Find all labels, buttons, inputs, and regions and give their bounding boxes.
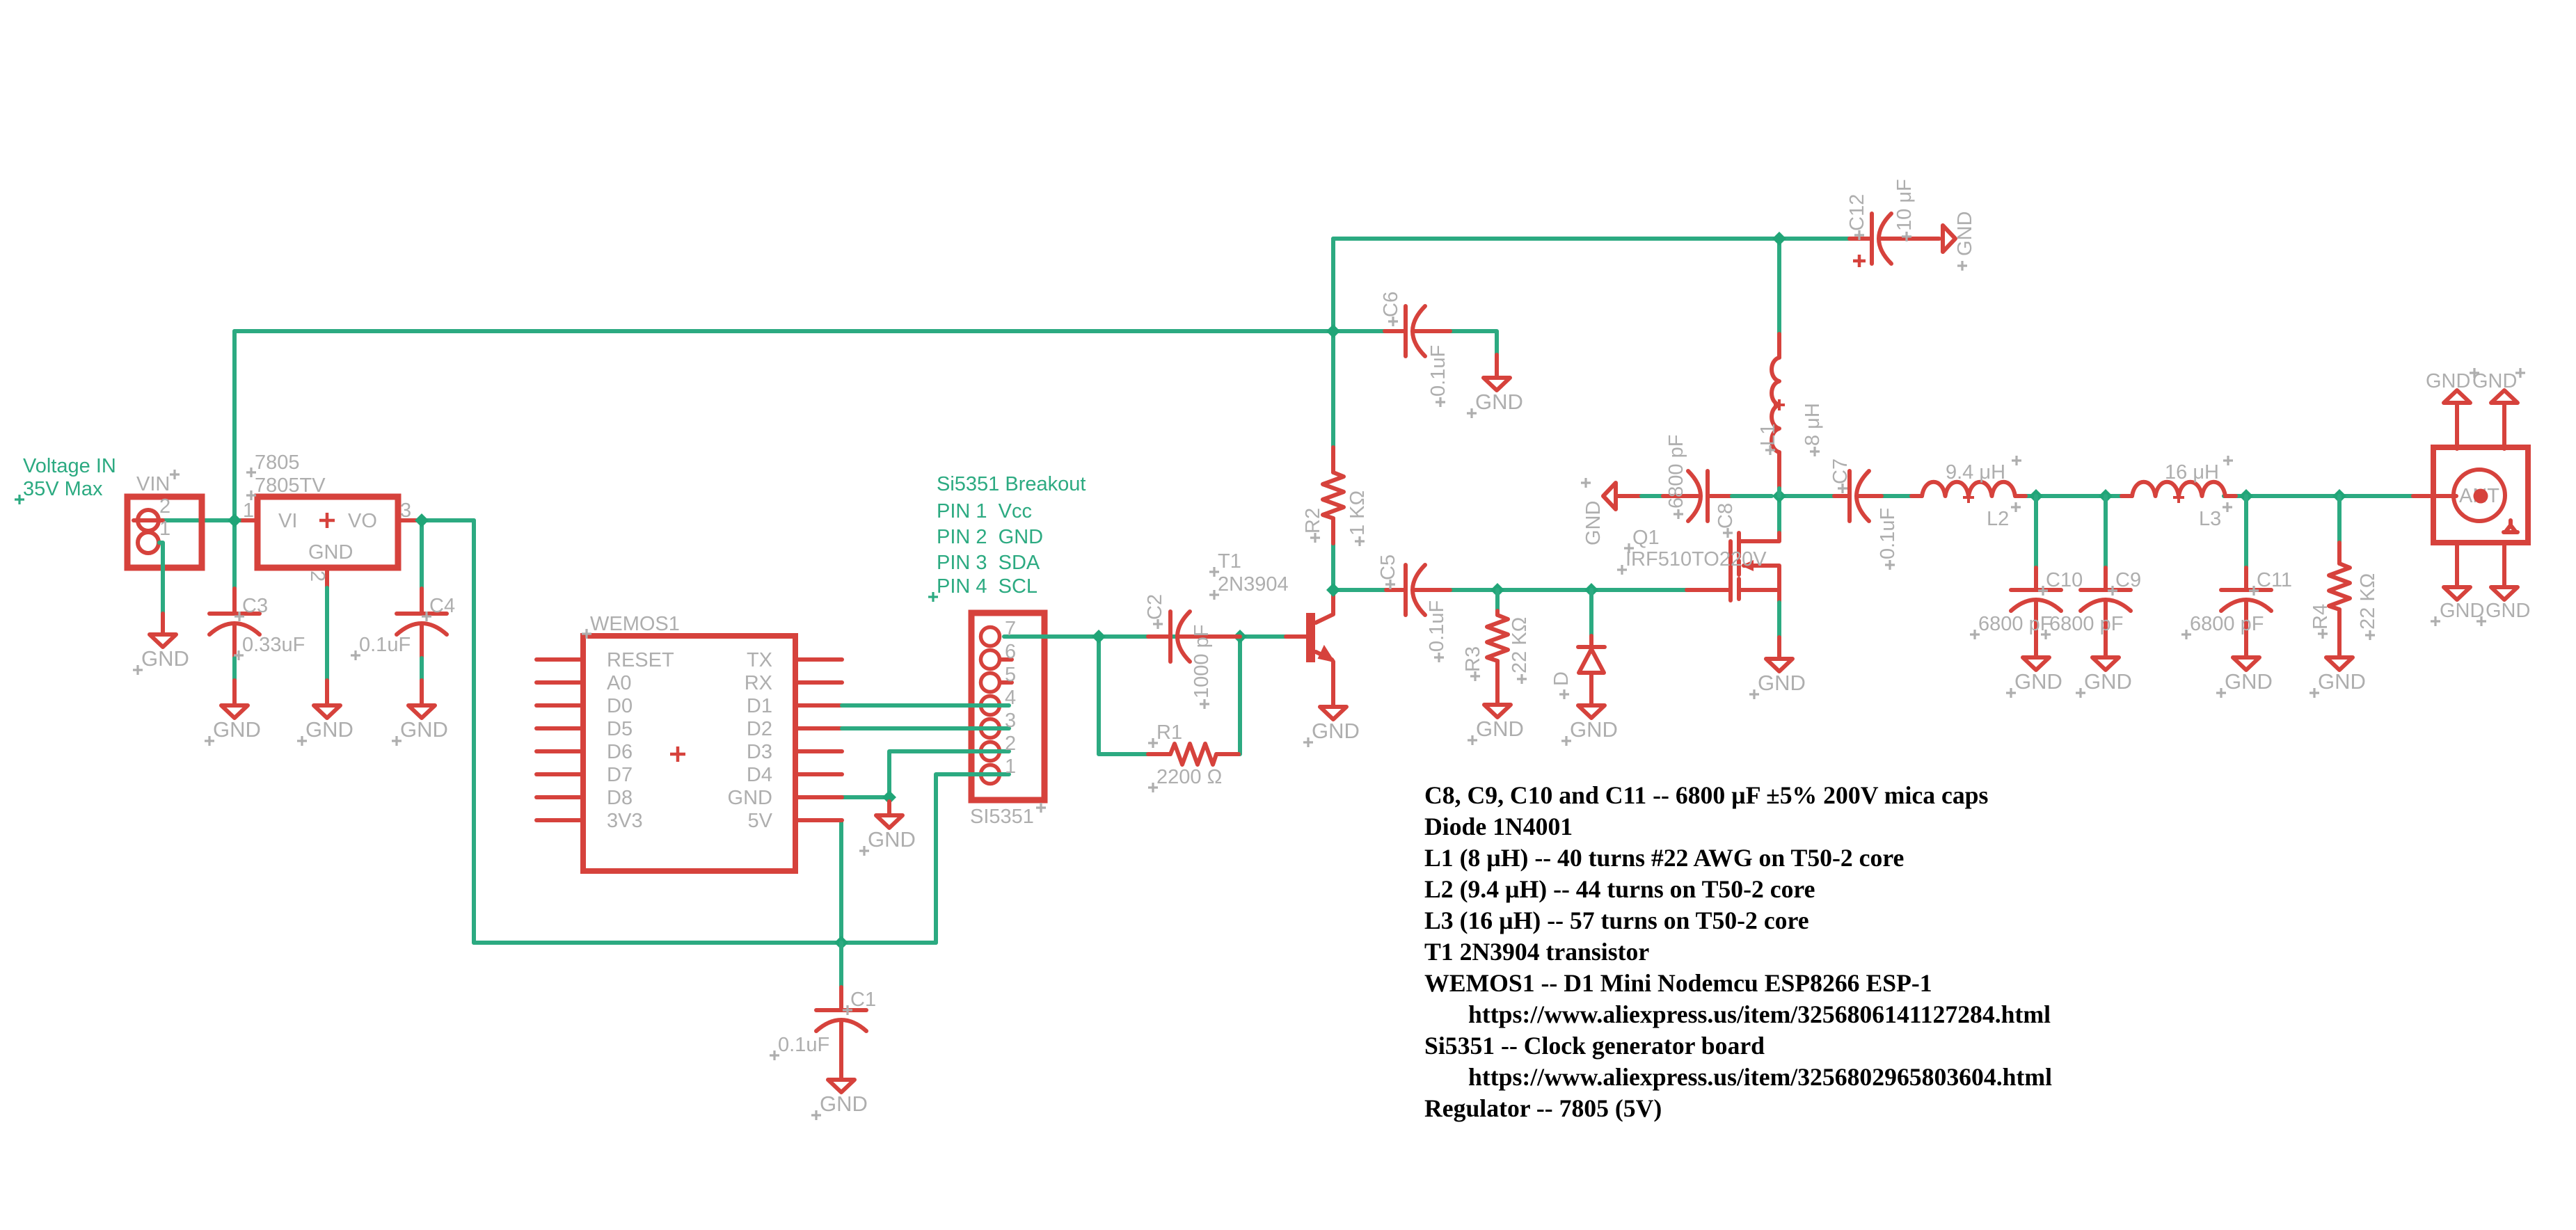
wire C5 to R3/diode/Q1 gate: [1450, 588, 1687, 592]
svg-text:GND: GND: [400, 717, 448, 742]
svg-text:GND: GND: [1476, 717, 1524, 741]
node VIN junction: [228, 513, 241, 527]
svg-text:PIN 2 GND: PIN 2 GND: [937, 526, 1043, 548]
inductor L3 16 uH: [2122, 494, 2132, 498]
wire 12V rail horizontal y=476: [234, 329, 1333, 333]
svg-text:VIN: VIN: [136, 473, 170, 495]
wire vertical x=681 down to 5V rail: [472, 520, 476, 943]
capacitor C6 0.1uF: [1385, 329, 1406, 333]
wire C6 to GND corner: [1450, 331, 1497, 355]
resistor R2 1 Kohm: [1331, 331, 1335, 447]
svg-text:2: 2: [159, 495, 170, 518]
wire Q1 source to ground: [1777, 602, 1781, 637]
svg-text:35V Max: 35V Max: [23, 478, 103, 500]
svg-text:22 KΩ: 22 KΩ: [1509, 617, 1531, 673]
ground GND under VIN pin1: [161, 614, 165, 634]
pin D1 of WEMOS1: [795, 703, 842, 708]
wire C12 lead: [1779, 237, 1850, 241]
pin D8 of WEMOS1: [536, 795, 583, 799]
svg-text:9.4 μH: 9.4 μH: [1946, 461, 2005, 484]
pin GND of WEMOS1: [795, 795, 842, 799]
svg-text:R3: R3: [1462, 646, 1484, 672]
svg-text:IRF510TO220V: IRF510TO220V: [1625, 548, 1767, 570]
pin 5 of SI5351: [981, 673, 1000, 692]
ground GND under R4: [2326, 657, 2353, 670]
svg-text:GND: GND: [868, 827, 916, 852]
ground GND under C10: [2023, 657, 2049, 670]
svg-text:L2: L2: [1987, 508, 2009, 530]
pin lead into ANT: [2413, 494, 2456, 498]
connector SI5351 header box: [971, 613, 1044, 800]
svg-text:6800 pF: 6800 pF: [1978, 613, 2052, 635]
wire VIN pin1 to GND: [159, 543, 163, 614]
wire rail up to SI5351 pin1: [936, 774, 1009, 943]
wire collector rail to C5: [1333, 588, 1386, 592]
ground GND under T1 emitter: [1320, 707, 1346, 719]
pin 1 of SI5351: [981, 765, 1000, 784]
node VO junction: [415, 513, 429, 527]
svg-text:Si5351 -- Clock generator boar: Si5351 -- Clock generator board: [1424, 1032, 1765, 1060]
svg-text:L2 (9.4 µH) -- 44 turns on T50: L2 (9.4 µH) -- 44 turns on T50-2 core: [1424, 875, 1815, 903]
ground GND under C4: [408, 705, 435, 718]
wire L2 to L3 with C10/C9 taps: [2015, 494, 2132, 498]
svg-text:C8: C8: [1715, 503, 1737, 529]
svg-text:6800 pF: 6800 pF: [2049, 613, 2123, 635]
svg-text:C4: C4: [429, 595, 455, 617]
pin 1 lead of 7805: [242, 518, 257, 522]
svg-text:https://www.aliexpress.us/item: https://www.aliexpress.us/item/325680614…: [1468, 1000, 2051, 1028]
svg-text:5V: 5V: [748, 810, 773, 832]
svg-text:0.1uF: 0.1uF: [359, 634, 411, 656]
capacitor C5 0.1uF: [1386, 588, 1406, 592]
pin 3 of SI5351: [981, 719, 1000, 738]
svg-text:C8, C9, C10 and C11 -- 6800 µF: C8, C9, C10 and C11 -- 6800 µF ±5% 200V …: [1424, 781, 1989, 809]
svg-text:GND: GND: [2084, 669, 2132, 694]
ground GND under R3: [1484, 705, 1511, 717]
svg-text:GND: GND: [2014, 669, 2062, 694]
wire C7 to L2: [1882, 494, 1922, 498]
svg-text:2200 Ω: 2200 Ω: [1156, 766, 1222, 788]
wire drain node down from L1 junction: [1777, 496, 1781, 533]
pin D3 of WEMOS1: [795, 749, 842, 753]
wire bottom 5V rail y=1355: [474, 941, 936, 945]
node pin7 junction right: [1233, 630, 1247, 644]
svg-text:1000 pF: 1000 pF: [1191, 625, 1213, 698]
ground GND stub bottom-right of ANT: [2502, 543, 2506, 587]
wire L1 top lead: [1777, 239, 1781, 334]
svg-text:5: 5: [1005, 664, 1016, 686]
svg-text:7805TV: 7805TV: [255, 474, 326, 497]
svg-text:GND: GND: [2440, 600, 2484, 622]
svg-text:0.33uF: 0.33uF: [242, 634, 305, 656]
svg-text:GND: GND: [1475, 390, 1523, 414]
svg-text:Q1: Q1: [1632, 527, 1660, 549]
ground GND stub bottom-left of ANT: [2455, 543, 2459, 587]
svg-text:D7: D7: [607, 764, 633, 786]
capacitor C2 1000 pF: [1148, 634, 1170, 639]
node pin7 junction left: [1092, 630, 1106, 644]
svg-text:C9: C9: [2115, 569, 2141, 591]
svg-text:1 KΩ: 1 KΩ: [1346, 490, 1369, 536]
svg-text:https://www.aliexpress.us/item: https://www.aliexpress.us/item/325680296…: [1468, 1063, 2052, 1091]
svg-text:7: 7: [1005, 618, 1016, 640]
small ground symbol inside ANT box: [2504, 520, 2518, 532]
svg-text:C2: C2: [1144, 594, 1166, 620]
svg-text:GND: GND: [1758, 671, 1806, 695]
node top rail junction: [1772, 232, 1786, 246]
svg-text:3: 3: [1005, 710, 1016, 732]
pin RX of WEMOS1: [795, 680, 842, 685]
svg-text:C7: C7: [1829, 458, 1852, 484]
ground GND under Q1 source: [1766, 659, 1792, 671]
wire WEMOS D1 to SI5351 pin4: [842, 703, 1009, 708]
svg-text:L1: L1: [1757, 424, 1779, 446]
resistor R4 22 Kohm: [2332, 489, 2346, 503]
svg-text:GND: GND: [820, 1092, 868, 1116]
svg-text:R4: R4: [2309, 604, 2332, 630]
pin A0 of WEMOS1: [536, 680, 583, 685]
wire R1 right branch up: [1239, 637, 1240, 754]
pin 2 of SI5351: [981, 742, 1000, 761]
ground GND under C1: [828, 1080, 854, 1092]
svg-text:C12: C12: [1846, 194, 1868, 231]
ground GND under diode: [1578, 705, 1605, 718]
wire R1 left branch down: [1099, 637, 1148, 754]
svg-text:GND: GND: [213, 717, 261, 742]
pin 7 of SI5351: [981, 628, 1000, 646]
wire 5V pin of WEMOS down to rail: [839, 820, 843, 943]
ground GND under C3: [221, 705, 248, 718]
pin 6 of SI5351: [981, 650, 1000, 669]
svg-text:1: 1: [243, 500, 254, 522]
svg-text:Si5351 Breakout: Si5351 Breakout: [937, 473, 1086, 495]
svg-text:GND: GND: [2426, 370, 2470, 392]
wire 7805 GND pin to ground: [325, 588, 329, 680]
pin TX of WEMOS1: [795, 657, 842, 662]
capacitor C12 10 uF: [1850, 237, 1872, 241]
connector VIN pin header box: [127, 497, 202, 568]
svg-text:10 μF: 10 μF: [1893, 179, 1916, 231]
svg-text:L1 (8 µH) -- 40 turns #22 AWG: L1 (8 µH) -- 40 turns #22 AWG on T50-2 c…: [1424, 844, 1904, 872]
svg-text:GND: GND: [305, 717, 353, 742]
svg-text:8 μH: 8 μH: [1802, 403, 1824, 446]
svg-text:D6: D6: [607, 741, 633, 763]
svg-text:GND: GND: [728, 787, 772, 809]
svg-text:PIN 3 SDA: PIN 3 SDA: [937, 552, 1040, 574]
svg-text:Regulator -- 7805 (5V): Regulator -- 7805 (5V): [1424, 1094, 1662, 1122]
svg-text:0.1uF: 0.1uF: [778, 1034, 829, 1056]
svg-text:C5: C5: [1377, 554, 1399, 580]
svg-text:WEMOS1 -- D1 Mini Nodemcu ESP8: WEMOS1 -- D1 Mini Nodemcu ESP8266 ESP-1: [1424, 969, 1932, 997]
svg-text:0.1uF: 0.1uF: [1877, 508, 1899, 559]
capacitor C3 0.33uF: [232, 520, 237, 589]
svg-text:Voltage IN: Voltage IN: [23, 455, 116, 477]
svg-text:6800 pF: 6800 pF: [2190, 613, 2264, 635]
svg-text:C6: C6: [1380, 291, 1402, 317]
svg-text:4: 4: [1005, 687, 1016, 709]
pin D0 of WEMOS1: [536, 703, 583, 708]
svg-text:RESET: RESET: [607, 649, 674, 671]
svg-text:2: 2: [306, 570, 328, 582]
ground GND stub top-right of ANT: [2502, 403, 2506, 449]
svg-text:D2: D2: [747, 718, 772, 740]
svg-text:1: 1: [1005, 756, 1016, 778]
svg-text:Diode 1N4001: Diode 1N4001: [1424, 813, 1573, 840]
pin 3V3 of WEMOS1: [536, 818, 583, 822]
svg-text:6800 pF: 6800 pF: [1665, 435, 1687, 509]
origin cross of WEMOS1: [670, 746, 685, 762]
wire 7805 VO junction to bottom rail corner: [422, 518, 474, 522]
svg-text:SI5351: SI5351: [970, 806, 1034, 828]
connector ANT box: [2433, 447, 2528, 543]
wire top supply rail y=343 to L1/C12: [1333, 237, 1779, 241]
ground GND flag right of C12: [1943, 225, 1955, 252]
svg-text:RX: RX: [745, 672, 772, 694]
module WEMOS1 ESP8266 D1 Mini box: [583, 636, 795, 871]
svg-text:GND: GND: [2225, 669, 2273, 694]
svg-text:22 KΩ: 22 KΩ: [2357, 573, 2379, 630]
wire 12V rail top-left vertical from VIN junction: [232, 331, 237, 520]
node drain junction: [1772, 489, 1786, 503]
svg-text:D4: D4: [747, 764, 772, 786]
svg-text:T1: T1: [1218, 550, 1241, 573]
inductor L2 9.4 uH: [1911, 494, 1922, 498]
connector VIN pin 2 circle: [138, 510, 159, 531]
svg-text:PIN 4 SCL: PIN 4 SCL: [937, 575, 1037, 598]
wire C6 lead: [1333, 329, 1385, 333]
svg-text:D0: D0: [607, 695, 633, 717]
svg-text:2: 2: [1005, 733, 1016, 755]
wire VIN pin2 to 7805 VI: [159, 518, 242, 522]
ground GND under 7805: [314, 705, 340, 718]
svg-text:D5: D5: [607, 718, 633, 740]
svg-text:WEMOS1: WEMOS1: [590, 613, 680, 635]
diode D 1N4001: [1584, 583, 1598, 597]
svg-text:1: 1: [159, 518, 170, 540]
svg-text:GND: GND: [1570, 717, 1618, 742]
transistor Q1 IRF510: [1687, 588, 1729, 592]
pin 3 lead of 7805: [398, 518, 422, 522]
pin 4 of SI5351: [981, 696, 1000, 715]
svg-text:7805: 7805: [255, 452, 300, 474]
svg-text:2N3904: 2N3904: [1218, 573, 1289, 596]
transistor T1 2N3904: [1306, 613, 1315, 662]
svg-text:GND: GND: [1312, 719, 1360, 743]
connector VIN pin 1 circle: [138, 532, 159, 553]
svg-text:GND: GND: [2486, 600, 2530, 622]
svg-text:L3: L3: [2199, 508, 2221, 530]
ground GND under C9: [2092, 657, 2119, 670]
svg-text:R2: R2: [1302, 508, 1324, 534]
svg-text:VI: VI: [278, 510, 297, 532]
svg-text:R1: R1: [1156, 721, 1182, 744]
pin 2 GND lead of 7805: [325, 568, 329, 588]
wire WEMOS GND to junction: [842, 795, 889, 799]
ground GND flag left of C8: [1603, 483, 1616, 509]
ground GND under C6: [1484, 378, 1510, 390]
wire C7 lead from drain junction: [1779, 494, 1834, 498]
svg-text:C11: C11: [2257, 569, 2292, 591]
wire riser x=1916 from C6/R2 junction to top rail: [1331, 239, 1335, 331]
regulator U1 7805 box: [257, 497, 398, 568]
svg-text:0.1uF: 0.1uF: [1427, 345, 1449, 397]
wire SI5351 pin7 to C2/R1 node: [1004, 634, 1286, 639]
svg-text:C3: C3: [242, 595, 268, 617]
svg-text:GND: GND: [1954, 211, 1976, 256]
pin D4 of WEMOS1: [795, 772, 842, 776]
pin D6 of WEMOS1: [536, 749, 583, 753]
svg-text:PIN 1 Vcc: PIN 1 Vcc: [937, 500, 1032, 522]
resistor R3 22 Kohm: [1490, 583, 1504, 597]
wire R2 bottom to collector junction: [1331, 543, 1335, 590]
svg-text:D8: D8: [607, 787, 633, 809]
capacitor C7 0.1uF: [1834, 494, 1850, 498]
svg-text:3: 3: [400, 500, 411, 522]
svg-text:A0: A0: [607, 672, 631, 694]
svg-text:0.1uF: 0.1uF: [1426, 600, 1448, 652]
svg-text:GND: GND: [141, 646, 189, 671]
svg-text:GND: GND: [308, 541, 353, 564]
svg-text:GND: GND: [2472, 370, 2517, 392]
node T1 collector junction: [1326, 583, 1340, 597]
origin cross of 7805: [319, 513, 335, 528]
capacitor C11 6800 pF: [2239, 489, 2253, 503]
connector ANT center pin: [2474, 489, 2488, 504]
svg-text:D3: D3: [747, 741, 772, 763]
connector ANT circle: [2454, 470, 2505, 521]
svg-text:TX: TX: [747, 649, 772, 671]
svg-text:C10: C10: [2046, 569, 2083, 591]
capacitor C9 6800 pF: [2099, 489, 2113, 503]
svg-text:GND: GND: [1582, 501, 1605, 545]
svg-text:D1: D1: [747, 695, 772, 717]
svg-text:VO: VO: [348, 510, 377, 532]
ground GND under C11: [2233, 657, 2259, 670]
wire WEMOS D2 to SI5351 pin3: [842, 726, 1009, 730]
pin D5 of WEMOS1: [536, 726, 583, 730]
pin D2 of WEMOS1: [795, 726, 842, 730]
pin 5V of WEMOS1: [795, 818, 842, 822]
svg-text:D: D: [1550, 671, 1573, 686]
ground GND at WEMOS GND net: [882, 790, 896, 804]
svg-text:16 μH: 16 μH: [2165, 461, 2219, 484]
wire jog up to SI5351 pin2: [889, 751, 1009, 797]
wire L3 to ANT: [2224, 494, 2413, 498]
pin RESET of WEMOS1: [536, 657, 583, 662]
svg-text:6: 6: [1005, 641, 1016, 663]
svg-text:T1 2N3904 transistor: T1 2N3904 transistor: [1424, 938, 1649, 966]
svg-text:C1: C1: [850, 989, 876, 1011]
svg-text:GND: GND: [2318, 669, 2366, 694]
capacitor C10 6800 pF: [2029, 489, 2043, 503]
node C6/R2 junction: [1326, 324, 1340, 338]
capacitor C1 0.1uF: [834, 936, 848, 950]
pin D7 of WEMOS1: [536, 772, 583, 776]
svg-text:3V3: 3V3: [607, 810, 643, 832]
svg-text:L3 (16 µH) -- 57 turns on T50-: L3 (16 µH) -- 57 turns on T50-2 core: [1424, 906, 1809, 934]
inductor L1 8 uH: [1777, 334, 1781, 358]
capacitor C4 0.1uF: [420, 520, 424, 589]
ground GND stub top-left of ANT: [2455, 403, 2459, 449]
resistor R1 2200 ohm: [1148, 752, 1170, 756]
capacitor C8 6800 pF: [1641, 494, 1663, 498]
